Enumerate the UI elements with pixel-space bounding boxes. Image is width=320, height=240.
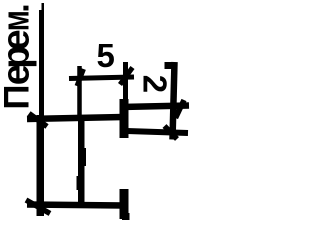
svg-text:.: . (0, 3, 37, 12)
svg-text:П: П (0, 84, 37, 109)
flange top edge / extension for 2-dim (122, 106, 189, 108)
tick at right end of 5-dim (120, 68, 133, 85)
svg-text:5: 5 (97, 37, 115, 74)
main dimension line (Перем.) (27, 117, 123, 119)
svg-text:2: 2 (137, 75, 174, 93)
flange bottom edge / extension for 2-dim (126, 131, 188, 133)
dimension line "5" (69, 77, 134, 79)
end bar at right of bottom line (120, 189, 129, 219)
extension line (5-dim left) (77, 66, 82, 116)
tick at left end of main dimension line (29, 114, 47, 127)
tick at upper crossing of 2-dim (176, 100, 185, 118)
flange left edge bar (120, 99, 129, 138)
label "Перем." (variable dimension text, rotated) (0, 3, 38, 109)
dimension line "2" (right vertical) (173, 62, 175, 140)
tick at bottom-left crossing (26, 200, 50, 214)
serif at top of 2-dim line (165, 62, 173, 69)
extension line (5-dim right / flange left edge) (123, 62, 128, 100)
extension line (left, long vertical) (39, 3, 44, 216)
bottom object/dimension line (27, 205, 124, 206)
tick at left end of 5-dim (77, 69, 84, 86)
web edge (thick vertical object line) (77, 115, 87, 206)
tick at lower crossing of 2-dim (165, 126, 178, 139)
svg-text:е: е (0, 29, 38, 50)
